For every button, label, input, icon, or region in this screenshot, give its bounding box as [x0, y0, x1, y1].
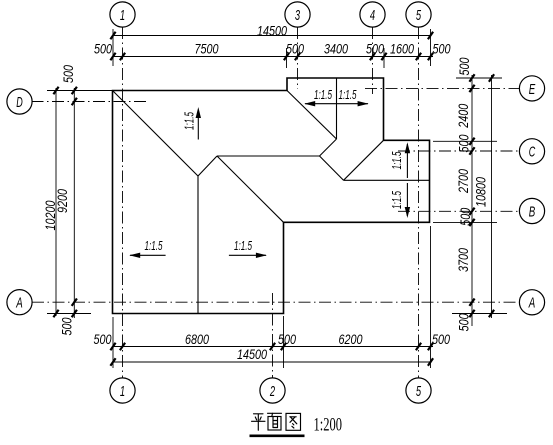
svg-text:3700: 3700: [456, 248, 472, 272]
svg-text:5: 5: [416, 7, 422, 24]
extension line top step (x=286.5): [286, 48, 288, 68]
grid bubble E right: [519, 76, 544, 101]
grid bubble B right: [519, 198, 544, 223]
right chain dimension line: [471, 75, 473, 326]
axis line E (horizontal): [365, 87, 520, 89]
axis line 3 (vertical, top only): [297, 27, 299, 89]
svg-text:10800: 10800: [474, 177, 490, 207]
extension line annex top (y=141.3): [433, 140, 497, 142]
grid bubble 5 top: [406, 2, 431, 27]
svg-text:500: 500: [278, 332, 296, 348]
dimension ticks top chain: [110, 53, 115, 60]
roof hip from NW corner: [113, 91, 199, 177]
svg-text:C: C: [529, 144, 536, 161]
axis line 2 (vertical, bottom only): [272, 293, 274, 378]
wing hip from top step corner: [287, 91, 337, 140]
axis line D (horizontal): [32, 101, 148, 103]
svg-text:500: 500: [433, 41, 451, 57]
axis line 5 (vertical): [418, 27, 420, 378]
dimension ticks top overall: [110, 32, 115, 39]
dimension ticks bottom overall: [110, 358, 115, 365]
svg-text:1:1.5: 1:1.5: [314, 87, 332, 102]
svg-text:1600: 1600: [390, 41, 414, 57]
extension line bottom-left eave: [112, 317, 114, 368]
svg-text:1:1.5: 1:1.5: [389, 191, 404, 209]
extension line left top eave (y=90.5): [47, 90, 119, 92]
axis line C (horizontal): [398, 150, 520, 152]
annex down arrow: [406, 183, 408, 216]
grid bubble 1 top: [110, 2, 135, 27]
dimension ticks left chain: [72, 87, 77, 94]
grid bubble C right: [519, 139, 544, 164]
svg-text:500: 500: [94, 41, 112, 57]
svg-text:500: 500: [457, 134, 473, 152]
left slope arrow: [130, 254, 166, 256]
bottom overall dimension line 14500: [113, 361, 431, 363]
svg-text:1:1.5: 1:1.5: [339, 87, 357, 102]
grid bubble A right: [519, 290, 544, 315]
extension line right wing top (y=78): [456, 77, 502, 79]
svg-text:6200: 6200: [339, 332, 363, 348]
grid bubble 1 bottom: [110, 378, 135, 403]
grid bubble 2 bottom: [260, 378, 285, 403]
top chain dimension line: [113, 56, 433, 58]
svg-text:500: 500: [457, 57, 473, 75]
svg-text:4: 4: [370, 7, 375, 24]
title character TU: [286, 413, 301, 430]
svg-text:1:1.5: 1:1.5: [389, 151, 404, 169]
grid bubble A left: [7, 290, 32, 315]
grid bubble 5 bottom: [406, 378, 431, 403]
roof hip short: [198, 156, 217, 176]
svg-text:1: 1: [120, 7, 125, 24]
extension line bottom-right eave: [430, 226, 432, 368]
extension line bottom step (x=283.5): [283, 316, 285, 368]
right slope arrow: [229, 254, 266, 256]
left overall dimension line 10200: [55, 88, 57, 316]
roof ridge vertical to south eave: [197, 176, 199, 314]
svg-text:3: 3: [295, 7, 301, 24]
axis line A (horizontal): [32, 301, 519, 303]
svg-text:500: 500: [61, 65, 77, 83]
dimension ticks right chain: [469, 74, 474, 81]
roof hip to wing ridge: [320, 139, 337, 156]
top overall dimension line 14500: [113, 35, 431, 37]
extension line right bottom eave (y=313.5): [452, 313, 507, 315]
wing double slope arrow: [305, 103, 368, 105]
roof valley to SE step corner: [217, 156, 284, 222]
svg-text:500: 500: [94, 332, 112, 348]
grid bubble 3 top: [285, 2, 310, 27]
annex up arrow: [406, 144, 408, 178]
annex ridge horizontal: [344, 179, 430, 181]
svg-text:2700: 2700: [456, 169, 472, 194]
right overall dimension line 10800: [491, 75, 493, 318]
svg-text:1:1.5: 1:1.5: [145, 238, 163, 253]
grid bubble 4 top: [360, 2, 385, 27]
bottom chain dimension line: [113, 346, 433, 348]
svg-text:A: A: [528, 295, 535, 312]
grid bubble D left: [7, 89, 32, 114]
svg-text:500: 500: [286, 41, 304, 57]
dimension ticks right overall: [489, 74, 494, 81]
left chain dimension line: [73, 88, 75, 318]
axis line 1 (vertical): [122, 27, 124, 378]
annex hip: [344, 140, 384, 180]
svg-text:6800: 6800: [185, 332, 209, 348]
svg-text:1:1.5: 1:1.5: [182, 112, 197, 130]
building eave outline: [113, 78, 430, 314]
svg-text:500: 500: [366, 41, 384, 57]
svg-text:7500: 7500: [195, 41, 219, 57]
roof ridge horizontal: [217, 155, 320, 157]
extension line wing right edge (x=384): [383, 48, 385, 68]
svg-text:500: 500: [432, 332, 450, 348]
svg-text:10200: 10200: [43, 200, 59, 230]
svg-text:2: 2: [269, 383, 275, 400]
svg-text:14500: 14500: [237, 347, 267, 363]
main roof up arrow: [197, 112, 199, 140]
axis line 4 (vertical, top only): [372, 27, 374, 94]
svg-text:500: 500: [60, 317, 76, 335]
svg-text:A: A: [16, 295, 23, 312]
title character PING: [252, 414, 266, 431]
svg-text:5: 5: [416, 383, 422, 400]
title underline: [250, 434, 305, 437]
svg-text:B: B: [529, 203, 536, 220]
svg-text:500: 500: [458, 208, 474, 226]
extension line left bottom eave (y=313.5): [47, 313, 91, 315]
extension line annex bottom (y=222.4): [433, 221, 497, 223]
svg-text:1:200: 1:200: [314, 416, 343, 436]
axis line B (horizontal): [398, 210, 520, 212]
svg-text:1:1.5: 1:1.5: [234, 238, 252, 253]
svg-text:1: 1: [120, 383, 125, 400]
svg-text:3400: 3400: [324, 41, 348, 57]
wing ridge vertical: [336, 78, 338, 139]
valley to annex ridge: [320, 156, 344, 180]
svg-text:500: 500: [457, 313, 473, 331]
extension line top-left eave: [112, 29, 114, 66]
dimension ticks bottom chain: [110, 343, 115, 350]
title character MIAN: [268, 413, 282, 430]
svg-text:14500: 14500: [257, 23, 287, 39]
svg-text:D: D: [16, 94, 23, 111]
dimension ticks left overall: [53, 87, 58, 94]
extension line top-right eave: [430, 29, 432, 66]
svg-text:E: E: [529, 81, 536, 98]
svg-text:2400: 2400: [456, 104, 472, 129]
